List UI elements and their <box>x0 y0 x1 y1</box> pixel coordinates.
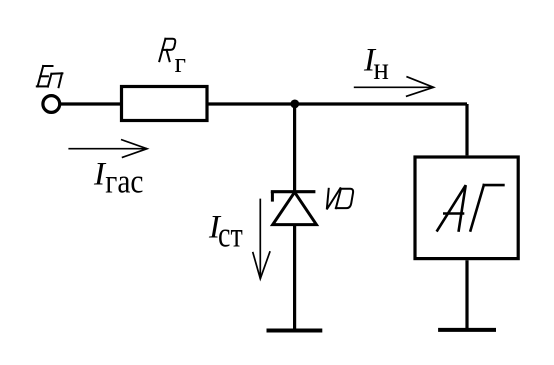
svg-text:г: г <box>175 47 187 79</box>
label Rg <box>159 39 186 79</box>
wire <box>293 104 296 192</box>
current arrow I_gas <box>68 140 147 158</box>
label AG <box>437 185 503 230</box>
label I_gas <box>93 157 144 201</box>
zener diode VD <box>271 192 317 225</box>
wire <box>465 104 468 155</box>
label I_st <box>208 209 243 254</box>
label En <box>37 66 63 87</box>
terminal En <box>43 96 60 113</box>
wire <box>293 225 296 331</box>
label I_n <box>363 43 389 87</box>
ground <box>438 328 496 332</box>
label VD <box>327 188 353 209</box>
wire <box>209 102 468 105</box>
ground <box>267 329 323 333</box>
resistor Rg <box>122 87 208 121</box>
current arrow I_st <box>253 199 270 279</box>
block AG <box>415 157 518 259</box>
svg-text:гас: гас <box>105 164 143 201</box>
svg-text:н: н <box>373 50 389 86</box>
node junction <box>290 100 299 109</box>
wire <box>465 260 468 330</box>
current arrow I_n <box>354 77 434 97</box>
wire <box>60 102 120 105</box>
svg-text:ст: ст <box>218 214 243 254</box>
